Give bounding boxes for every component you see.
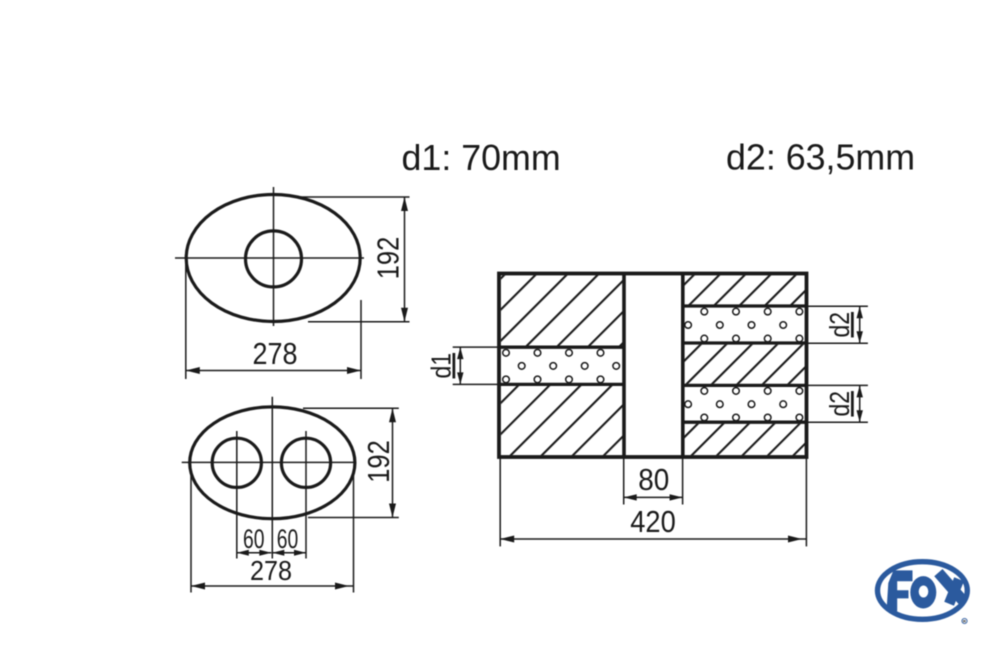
dim d2 upper extension bottom <box>807 342 868 344</box>
dim 80 extension right <box>682 457 684 505</box>
dim d2 upper dimension line <box>859 306 861 343</box>
dim 420 arrow right <box>788 536 802 543</box>
hatch right upper chamber <box>685 275 806 304</box>
dim d1 arrow up <box>457 347 463 359</box>
dim d1 extension bottom <box>453 383 499 385</box>
dim 192 (bottom view) extension bottom <box>308 517 399 519</box>
tube wall d2 upper bottom (right) <box>683 341 807 344</box>
dim 80 arrow left <box>624 494 637 500</box>
dim 60 left arrow right <box>259 550 271 556</box>
tube wall d1 top (left) <box>499 346 624 349</box>
logo registered mark <box>962 618 967 623</box>
perforated tube d1 (left) <box>503 350 620 383</box>
svg-text:d1: d1 <box>426 353 457 379</box>
tube wall d2 upper top (right) <box>683 304 807 307</box>
oval body 1 (278x192 shell) <box>186 195 360 322</box>
centerline vertical oval 2 <box>271 397 273 559</box>
dim 278 (bottom view) extension right <box>353 473 355 593</box>
tube wall d1 bottom (left) <box>499 383 624 386</box>
dim d2 lower arrow down <box>857 410 863 422</box>
dim 278 (top view) arrow right <box>347 367 361 374</box>
oval body 2 (278x192 shell) <box>190 407 355 519</box>
dim 60 right arrow right <box>294 550 306 556</box>
svg-text:d2: d2 <box>824 312 855 338</box>
right pipe circle <box>281 438 330 487</box>
svg-text:d2: d2 <box>824 391 855 417</box>
dim 80 arrow right <box>670 494 683 500</box>
muffler shell outline <box>499 274 807 458</box>
logo letter O <box>910 576 936 608</box>
chamber wall left of gap <box>622 274 626 458</box>
dim 278 (bottom view) arrow right <box>335 583 349 590</box>
centerline right pipe <box>305 431 307 559</box>
hatch right lower chamber <box>685 424 806 456</box>
svg-text:278: 278 <box>250 555 292 586</box>
dim d2 upper arrow down <box>857 331 863 343</box>
dim 192 (top view) arrow up <box>401 197 408 211</box>
centerline vertical oval 1 <box>273 187 275 326</box>
dim 278 (top view) dimension line <box>186 370 361 372</box>
svg-text:278: 278 <box>253 337 298 371</box>
dim 420 extension right <box>805 457 807 546</box>
svg-text:60: 60 <box>243 524 265 554</box>
dim d2 lower dimension line <box>859 385 861 422</box>
dim d2 upper extension top <box>807 305 868 307</box>
dim d2 lower extension top <box>807 384 868 386</box>
dim 60 right arrow left <box>272 550 284 556</box>
svg-text:80: 80 <box>638 463 669 497</box>
dim 278 (bottom view) extension left <box>190 474 192 593</box>
dim 278 (top view) extension right <box>360 300 362 379</box>
svg-text:60: 60 <box>277 524 299 554</box>
tube wall d2 lower bottom (right) <box>683 421 807 424</box>
dim 278 (top view) arrow left <box>186 367 200 374</box>
dim 192 (top view) dimension line <box>404 197 406 322</box>
dim d2 lower arrow up <box>857 385 863 397</box>
logo ellipse ring <box>878 562 968 620</box>
dim d2 upper arrow up <box>857 306 863 318</box>
inlet circle d1 <box>246 231 302 287</box>
dim 192 (bottom view) arrow up <box>389 408 396 422</box>
hatch left lower chamber <box>501 386 623 455</box>
svg-text:d2: 63,5mm: d2: 63,5mm <box>726 138 915 178</box>
dim 278 (bottom view) arrow left <box>191 583 205 590</box>
chamber wall right of gap <box>681 274 685 458</box>
logo letter F <box>887 570 913 611</box>
dim d2 lower extension bottom <box>807 421 868 423</box>
centerline left pipe <box>236 431 238 559</box>
logo letter X <box>938 573 964 602</box>
perforated tube d2 (right upper) <box>685 308 803 342</box>
dim 60 left arrow left <box>237 550 249 556</box>
svg-text:d1: 70mm: d1: 70mm <box>402 138 561 178</box>
svg-text:R: R <box>963 619 966 624</box>
dim 420 dimension line <box>500 538 806 540</box>
centerline horizontal oval 2 <box>182 461 356 463</box>
left pipe circle <box>212 438 261 487</box>
dim 278 (top view) extension left <box>185 260 187 379</box>
dim 192 (bottom view) extension top <box>303 407 399 409</box>
dim 192 (top view) extension bottom <box>308 321 410 323</box>
perforated tube d2 (right lower) <box>685 388 803 421</box>
dim 192 (bottom view) dimension line <box>392 408 394 517</box>
dim 192 (bottom view) arrow down <box>389 504 396 518</box>
dim 192 (top view) extension top <box>297 196 410 198</box>
dim d1 extension top <box>453 346 499 348</box>
dim 60 left dimension line <box>237 552 271 554</box>
tube wall d2 lower top (right) <box>683 384 807 387</box>
centerline horizontal oval 1 <box>175 257 364 259</box>
dim 278 (bottom view) dimension line <box>191 585 354 587</box>
dim 192 (top view) arrow down <box>401 308 408 322</box>
dim 60 right dimension line <box>272 552 306 554</box>
dim 80 extension left <box>623 457 625 505</box>
hatch left upper chamber <box>501 275 623 346</box>
svg-text:192: 192 <box>362 440 396 483</box>
dim 420 extension left <box>499 457 501 546</box>
dim 80 dimension line <box>624 496 683 498</box>
dim d1 dimension line <box>459 347 461 384</box>
svg-text:420: 420 <box>630 505 676 539</box>
dim 420 arrow left <box>500 536 514 543</box>
svg-text:192: 192 <box>372 237 406 280</box>
hatch right middle chamber <box>685 345 806 384</box>
dim d1 arrow down <box>457 372 463 384</box>
